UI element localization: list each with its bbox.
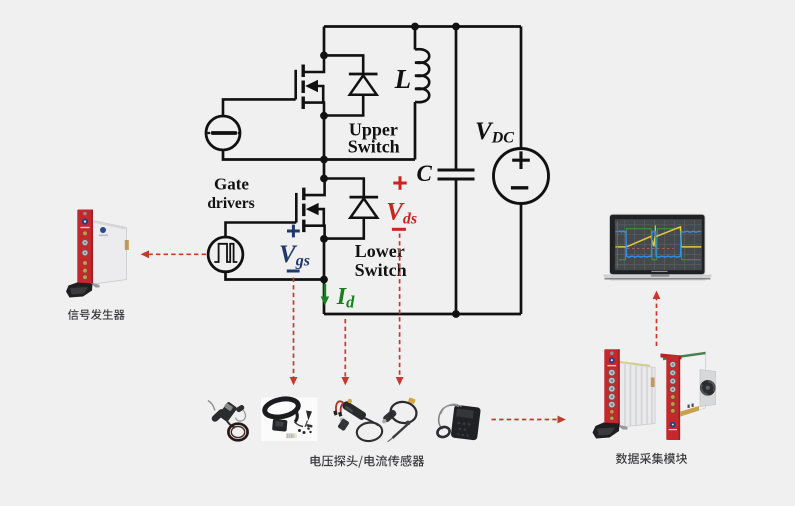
junction lower source node bbox=[320, 235, 328, 243]
capacitor C branch bbox=[438, 27, 475, 315]
svg-text:C: C bbox=[417, 161, 433, 186]
wire gate lead upper bbox=[223, 99, 296, 116]
source VDC branch bbox=[494, 27, 549, 315]
svg-text:Vgs: Vgs bbox=[279, 241, 310, 270]
junction pulse return bbox=[320, 276, 328, 284]
signal generator module photo bbox=[66, 210, 129, 298]
junction dots bbox=[320, 23, 460, 318]
DAQ module left photo bbox=[593, 349, 656, 438]
dashed probe line Vgs bbox=[293, 278, 295, 384]
diode D2 lower bbox=[325, 179, 379, 239]
inductor L bbox=[415, 27, 429, 160]
svg-text:Gate: Gate bbox=[214, 175, 249, 194]
probe photo 2 bbox=[261, 396, 318, 441]
label 电压探头/电流传感器 bbox=[311, 455, 425, 468]
dashed link DAQ to laptop bbox=[656, 293, 658, 347]
probe photo 4 bbox=[381, 397, 418, 441]
laptop photo bbox=[604, 214, 712, 280]
gate drive source G1 bbox=[206, 116, 241, 150]
wire bottom rail bbox=[324, 313, 521, 316]
dashed probe line Vds bbox=[399, 234, 401, 384]
label 信号发生器 bbox=[68, 309, 125, 320]
svg-text:VDC: VDC bbox=[475, 118, 514, 147]
label Vgs bbox=[279, 225, 310, 271]
svg-text:Id: Id bbox=[336, 284, 355, 312]
junction L top on rail bbox=[411, 23, 419, 31]
junction lower drain node bbox=[320, 175, 328, 183]
svg-text:Switch: Switch bbox=[355, 260, 407, 280]
wire switch-node vertical bbox=[323, 114, 326, 180]
wire pulse return bbox=[226, 272, 325, 280]
wire top rail bbox=[324, 25, 521, 28]
dashed link probes to DAQ bbox=[492, 419, 565, 421]
svg-text:Lower: Lower bbox=[355, 241, 405, 261]
diode D1 upper bbox=[324, 55, 378, 115]
label Vds bbox=[386, 176, 417, 229]
dashed link signal generator bbox=[143, 253, 207, 255]
wire left leg upper bbox=[323, 27, 326, 57]
transistor Q2 lower MOSFET bbox=[296, 179, 324, 238]
junction C top on rail bbox=[452, 23, 460, 31]
probe photo 1 bbox=[208, 401, 248, 441]
label 数据采集模块 bbox=[616, 453, 687, 464]
probe photo 3 bbox=[333, 399, 383, 443]
node switch mid-point bbox=[320, 156, 328, 164]
svg-text:Switch: Switch bbox=[348, 136, 400, 156]
junction upper drain node bbox=[320, 52, 328, 60]
svg-text:Vds: Vds bbox=[386, 199, 417, 228]
wire driver return to mid node bbox=[223, 150, 415, 160]
current arrow Id bbox=[321, 284, 329, 306]
junction upper source node bbox=[320, 112, 328, 120]
probe photo 5 bbox=[436, 404, 481, 440]
junction C bottom on rail bbox=[452, 310, 460, 318]
wire gate lead lower bbox=[226, 223, 297, 238]
svg-text:drivers: drivers bbox=[207, 195, 254, 212]
DAQ module right photo bbox=[661, 352, 716, 440]
svg-text:L: L bbox=[394, 64, 412, 94]
transistor Q1 upper MOSFET bbox=[296, 55, 324, 114]
pulse source G2 bbox=[208, 237, 243, 272]
wire lower source to bottom rail bbox=[323, 237, 326, 314]
dashed probe line Id bbox=[344, 319, 346, 384]
